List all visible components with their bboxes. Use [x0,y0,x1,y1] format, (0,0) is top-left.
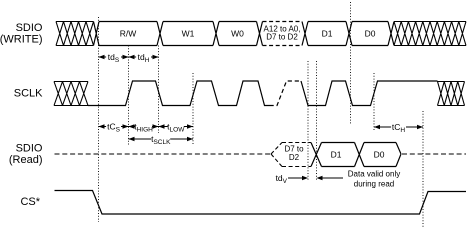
bus segment A12 to A0 D7 to D2 (dashed) [263,22,303,46]
read baseline dashed right [402,153,466,155]
guide line at last SCLK rise [373,73,375,131]
bus crossover W1/W0 [213,22,219,46]
svg-text:R/W: R/W [120,28,137,38]
svg-text:D1: D1 [331,149,342,159]
SDIO write don't-care hatch left [56,22,94,46]
read bus crossover D7D2/D1 [311,143,322,167]
read baseline dashed left [55,153,272,155]
svg-text:D7 to D2: D7 to D2 [266,33,298,42]
bus crossover W0/A12 [257,22,263,46]
timing arrow tC_S [99,126,129,128]
timing arrow td_H [129,56,159,58]
guide line at SCLK rise 2 [192,73,194,145]
bus crossover A12/D1 [302,22,308,46]
svg-text:Data valid only: Data valid only [348,170,400,179]
timing arrow tC_H [374,126,423,128]
read bus segment D0 [364,143,396,167]
bus segment W1 [163,22,213,46]
guide line at SCLK fall 1 [158,46,160,134]
svg-text:during read: during read [354,180,394,189]
SCLK wire dashed omitted cycles [270,81,302,106]
guide line at CS fall [98,17,100,222]
svg-text:(Read): (Read) [9,154,43,166]
svg-text:SDIO: SDIO [16,142,43,154]
bus segment D0 write [352,22,388,46]
svg-text:CS*: CS* [20,196,40,208]
svg-text:W1: W1 [182,28,195,38]
SCLK wire solid left part [88,81,270,106]
read bus crossover D1/D0 [355,143,365,167]
SCLK don't-care hatch right [438,82,465,106]
bus segment W0 [219,22,257,46]
timing arrow t_HIGH [129,126,159,128]
svg-text:(WRITE): (WRITE) [0,34,43,46]
guide line at D1/D0 boundary [350,2,352,125]
svg-text:D1: D1 [322,28,333,38]
timing arrow t_SCLK [129,138,194,140]
read bus segment D7 to D2 (dashed) [282,143,311,167]
bus segment R/W [99,22,157,46]
timing arrow t_LOW [159,126,194,128]
SCLK wire solid right part [301,81,438,106]
guide line at SCLK rise 1 [128,46,130,146]
svg-text:SCLK: SCLK [14,88,43,100]
timing arrow td_V right part [322,177,343,179]
svg-text:D2: D2 [289,153,300,162]
bus segment D1 write [308,22,346,46]
svg-text:D0: D0 [365,28,376,38]
SDIO write don't-care hatch right [394,22,466,46]
CS* wire [55,191,467,215]
read bus D0 closing [396,143,401,167]
bus crossover RW/W1 [157,22,163,46]
guide line at SCLK fall before D1 read [307,61,309,181]
read bus D7-D2 opening (dashed) [271,143,282,167]
timing arrow td_V left part [288,177,303,179]
timing arrow td_S [99,56,129,58]
guide line at CS rise [422,111,424,228]
bus crossover hatch/RW [94,22,100,46]
bus crossover D1/D0 [346,22,352,46]
bus crossover D0/hatch [388,22,394,46]
SCLK don't-care hatch left [54,82,88,106]
read bus segment D1 [322,143,355,167]
guide line at read data valid [316,61,318,181]
svg-text:D0: D0 [374,149,385,159]
svg-text:SDIO: SDIO [16,22,43,34]
svg-text:W0: W0 [231,28,244,38]
